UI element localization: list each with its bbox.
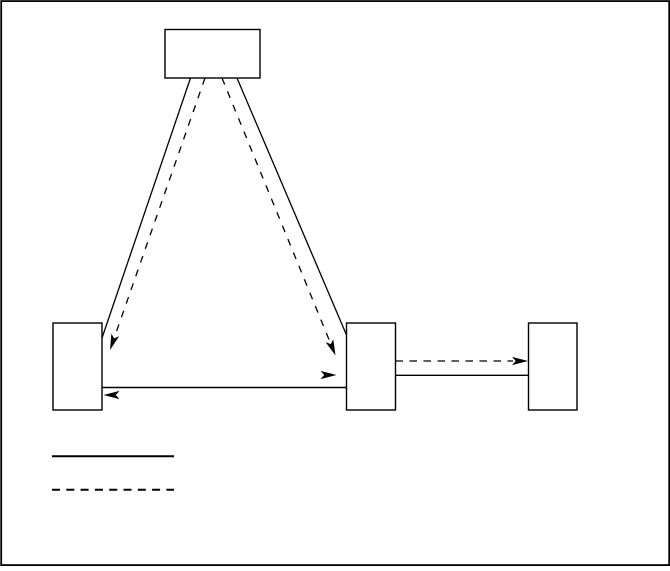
node top box bbox=[165, 30, 260, 79]
node right box bbox=[529, 323, 578, 410]
wire solid middle-box to right-box bbox=[396, 374, 529, 376]
wire solid top-box to left-box bbox=[102, 78, 191, 338]
legend solid line bbox=[52, 455, 174, 457]
arrowhead left-pointing near left-box bbox=[104, 391, 120, 399]
wire dashed arrow middle-box to right-box bbox=[396, 360, 514, 362]
arrowhead dashed middle-box to right-box bbox=[512, 357, 528, 365]
legend dashed line bbox=[52, 489, 174, 491]
arrowhead dashed top-box to left-box bbox=[106, 334, 119, 352]
wire dashed arrow top-box to middle-box bbox=[222, 78, 329, 340]
wire dashed arrow top-box to left-box bbox=[116, 78, 205, 334]
arrowhead dashed top-box to middle-box bbox=[326, 339, 340, 357]
wire solid left-box to middle-box bbox=[102, 387, 347, 389]
arrowhead right-pointing near middle-box bbox=[321, 371, 337, 379]
node left box bbox=[53, 323, 102, 410]
node middle box bbox=[347, 323, 396, 410]
wire solid top-box to middle-box bbox=[237, 78, 347, 335]
